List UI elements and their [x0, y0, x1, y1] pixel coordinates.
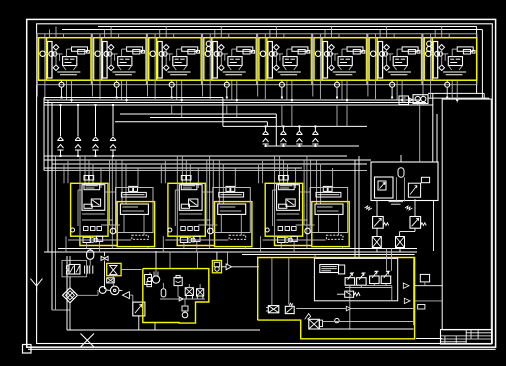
distribution bus: [52, 163, 367, 165]
port fitting: [66, 266, 69, 269]
bus drop wire: [436, 114, 438, 162]
wire: [78, 294, 99, 296]
coupling cross: [66, 292, 73, 299]
pilot valve spool: [378, 181, 386, 190]
distribution bus: [44, 167, 302, 169]
drop wire: [95, 150, 97, 156]
flow arrow: [410, 98, 413, 102]
wire riser: [481, 30, 483, 99]
wire: [89, 259, 91, 265]
drop wire: [112, 105, 114, 136]
duplex gauge on block B4: [206, 41, 211, 46]
wire: [376, 228, 378, 236]
spring: [289, 303, 293, 305]
drop wire: [265, 144, 267, 146]
parts list reserved box: [442, 99, 491, 330]
inner border frame: [37, 24, 493, 344]
junction dots: [60, 104, 62, 106]
cooler pump: [415, 96, 420, 101]
wire: [399, 232, 401, 237]
wire: [129, 294, 132, 296]
transfer line: [265, 145, 360, 147]
wire: [155, 251, 157, 269]
drop wire: [282, 126, 284, 130]
wire: [232, 266, 259, 268]
bus step: [266, 122, 268, 127]
drop wire: [282, 144, 284, 146]
shutoff bowtie: [101, 256, 108, 260]
filter bowl: [186, 296, 192, 300]
line check valve: [75, 137, 81, 150]
title col: [470, 330, 472, 340]
wire: [271, 258, 273, 306]
wire: [184, 299, 186, 306]
drop wire: [314, 126, 316, 130]
drain point: [335, 318, 339, 322]
bypass orifice: [420, 274, 429, 282]
tank line: [67, 329, 260, 331]
pilot valve block: [375, 177, 394, 198]
inner diamond: [66, 291, 75, 300]
transfer pump body: [214, 262, 220, 267]
hand pump enclosure: [62, 260, 87, 276]
quick coupling diamond: [63, 288, 78, 303]
drain drop wire: [181, 105, 183, 118]
wire: [69, 303, 71, 330]
solenoid valve SV3: [370, 271, 380, 286]
pump unit block B5: [257, 27, 312, 103]
return header: [58, 248, 417, 250]
pump unit block B3: [147, 27, 202, 103]
wire: [242, 254, 415, 256]
wire: [400, 231, 415, 233]
valve arrow: [135, 305, 142, 314]
flow diamond: [226, 264, 232, 270]
wire: [160, 298, 205, 300]
relief valve RV2: [410, 217, 426, 229]
wire: [433, 201, 435, 252]
frame corner square: [23, 345, 32, 354]
solenoid valve SV4: [381, 271, 391, 286]
breather cap: [176, 275, 180, 278]
flow diamond: [404, 298, 410, 303]
accumulator small: [161, 289, 166, 297]
return filter RF1: [185, 288, 193, 296]
bus step: [222, 98, 224, 127]
pump unit block B6: [312, 27, 367, 103]
pump P10: [152, 276, 159, 283]
manifold outline: [314, 258, 397, 300]
wire: [345, 287, 392, 289]
wire: [413, 258, 415, 325]
drop wire: [298, 144, 300, 146]
drop wire: [77, 150, 79, 156]
drop wire: [77, 105, 79, 136]
wire: [227, 252, 229, 264]
transfer pump: [215, 267, 219, 271]
cooler drain wire: [419, 104, 421, 162]
valve arrow: [410, 186, 417, 195]
accumulator: [398, 168, 404, 178]
junction box: [399, 96, 409, 105]
line check valve: [58, 137, 64, 150]
port fitting: [66, 271, 69, 274]
wire: [395, 177, 397, 201]
control cabinet enclosure: [258, 258, 415, 339]
coupling marks: [90, 266, 93, 274]
wire: [119, 289, 122, 291]
title row: [466, 335, 491, 337]
drop wire: [314, 144, 316, 146]
alarm box: [107, 263, 121, 275]
drain bus: [120, 113, 276, 115]
drop wire: [60, 105, 62, 136]
winch unit W1: [64, 156, 155, 252]
wire: [428, 97, 489, 99]
pump unit block B4: [202, 27, 257, 103]
bus drop wire: [43, 98, 45, 171]
tank symbol: [389, 202, 404, 205]
wire: [55, 156, 57, 310]
wire: [89, 249, 91, 251]
coupling marks: [85, 266, 88, 274]
pilot header: [44, 170, 367, 172]
wire: [403, 177, 405, 201]
flow diamond: [346, 306, 351, 311]
wire: [153, 272, 155, 276]
drain bus: [115, 121, 267, 123]
return bus: [44, 104, 433, 106]
return header: [44, 251, 417, 253]
frame break mark: [30, 279, 42, 292]
pump unit block B7: [367, 27, 422, 103]
throttle box: [345, 291, 354, 297]
wire: [376, 201, 378, 217]
solenoid valve SV2: [357, 273, 367, 288]
wire: [428, 92, 484, 94]
pump mount: [145, 275, 152, 285]
pilot zigzag: [365, 206, 372, 210]
wire: [386, 248, 388, 270]
title col: [444, 336, 446, 344]
pump unit block B2: [92, 27, 147, 103]
title col: [465, 330, 467, 345]
cooler pump box: [413, 95, 428, 104]
alarm bowtie: [110, 266, 117, 275]
line check valve: [296, 131, 302, 144]
wire: [52, 309, 70, 311]
return bus: [44, 99, 421, 101]
wire: [154, 323, 156, 331]
supply bus: [62, 29, 482, 31]
title col: [477, 330, 479, 340]
drop wire: [265, 126, 267, 130]
wire: [162, 283, 164, 289]
wire: [177, 286, 179, 297]
wire: [399, 248, 401, 253]
title row: [441, 335, 467, 337]
wire: [104, 252, 106, 256]
wire: [349, 301, 351, 329]
valve ports: [266, 308, 268, 312]
cooler motor: [421, 96, 426, 101]
wire: [417, 104, 419, 106]
manifold port: [339, 265, 345, 274]
wire: [132, 295, 134, 302]
drain drop wire: [281, 105, 283, 126]
wire: [415, 300, 443, 302]
distribution bus: [44, 155, 347, 157]
wire: [288, 258, 290, 305]
break mark X: [81, 334, 95, 348]
strainer port: [319, 320, 322, 327]
pump port: [147, 282, 152, 287]
hand pump valve: [69, 265, 80, 275]
wire: [483, 93, 485, 99]
wire: [358, 156, 360, 258]
accumulator bottle: [87, 250, 94, 259]
filter F2: [396, 237, 405, 248]
wire: [415, 285, 443, 287]
wire: [106, 289, 110, 291]
pump unit block B1: [37, 27, 92, 103]
pilot bus: [223, 125, 367, 127]
valve arrows: [70, 266, 80, 273]
bus drop wire: [47, 100, 49, 252]
drain drop wire: [291, 105, 293, 126]
cone strainer: [122, 292, 129, 299]
pump control enclosure: [371, 162, 438, 201]
drain drop wire: [171, 105, 173, 114]
manifold label box: [320, 265, 339, 273]
pump P9: [99, 287, 106, 294]
line check valve: [280, 131, 286, 144]
duplex gauge on block B8: [427, 41, 432, 46]
drop wire: [112, 150, 114, 156]
filter F1: [372, 237, 381, 248]
drop wire: [95, 105, 97, 136]
line check valve: [110, 137, 116, 150]
line check valve: [263, 131, 269, 144]
drain drop wire: [226, 105, 228, 114]
drain drop wire: [236, 105, 238, 118]
heater element: [182, 312, 188, 318]
filter F3: [107, 278, 115, 283]
sheet bottom line: [28, 348, 496, 350]
wire: [97, 290, 99, 295]
breather tank: [174, 277, 182, 285]
title col: [455, 336, 457, 344]
wire: [351, 308, 414, 310]
wire: [199, 284, 201, 289]
transfer pump box: [212, 261, 221, 273]
back pressure valve: [285, 306, 294, 313]
wire: [376, 248, 378, 253]
sequence valve: [408, 183, 420, 197]
foot valve: [133, 302, 145, 316]
power pack enclosure: [143, 269, 209, 324]
wire: [197, 252, 199, 269]
bus drop wire: [432, 93, 434, 162]
wire: [155, 269, 157, 276]
drain orifice: [418, 305, 425, 310]
wire: [69, 277, 71, 288]
wire: [66, 256, 68, 330]
wire: [422, 104, 424, 106]
bus drop wire: [51, 103, 53, 311]
coupling: [148, 278, 152, 282]
title row: [441, 341, 467, 343]
wire: [323, 321, 414, 323]
return bus: [44, 97, 223, 99]
wire: [354, 160, 356, 258]
wire: [104, 261, 106, 290]
wire: [138, 316, 140, 330]
drop wire: [60, 150, 62, 156]
wire: [314, 255, 316, 259]
wire: [391, 248, 393, 270]
distribution bus: [44, 159, 371, 161]
winch unit W3: [259, 156, 350, 252]
pilot zigzag: [405, 206, 412, 210]
wire: [400, 155, 402, 162]
wire: [416, 338, 442, 340]
relief valve RV1: [373, 217, 389, 229]
heater body: [182, 306, 188, 311]
valve arrow: [380, 183, 386, 189]
shutoff valve: [268, 306, 279, 313]
motor M9: [110, 286, 119, 295]
line check valve: [93, 137, 99, 150]
drop wire: [298, 126, 300, 130]
flow diamond: [403, 283, 409, 288]
title row: [441, 338, 492, 340]
wire: [488, 98, 490, 99]
wire: [69, 256, 71, 264]
bus step: [275, 114, 277, 146]
title row: [466, 332, 491, 334]
wire: [121, 269, 141, 271]
wire: [414, 228, 416, 231]
wire: [314, 328, 414, 330]
solenoid valve SV1: [345, 273, 355, 288]
title block: [441, 330, 492, 345]
wire: [414, 199, 416, 216]
line check valve: [312, 131, 318, 144]
strainer S1: [305, 314, 311, 320]
winch unit W2: [161, 156, 252, 252]
return filter RF2: [197, 289, 204, 296]
drain drop wire: [336, 105, 338, 126]
drain drop wire: [346, 105, 348, 126]
supply bus: [98, 26, 477, 28]
wire: [222, 266, 227, 268]
wire riser: [476, 27, 478, 94]
wire: [424, 282, 426, 286]
wire: [296, 308, 346, 310]
wire: [169, 252, 171, 269]
wire: [112, 276, 114, 286]
return bus: [44, 102, 426, 104]
filter bowl: [197, 296, 203, 299]
throttle arrow: [337, 292, 352, 295]
control orifice: [421, 177, 429, 182]
wire: [216, 252, 218, 261]
flow arrow: [179, 297, 183, 301]
pump unit block B8: [422, 27, 477, 103]
throttle spring: [354, 293, 360, 296]
wire: [188, 284, 190, 288]
drain bus: [150, 117, 276, 119]
